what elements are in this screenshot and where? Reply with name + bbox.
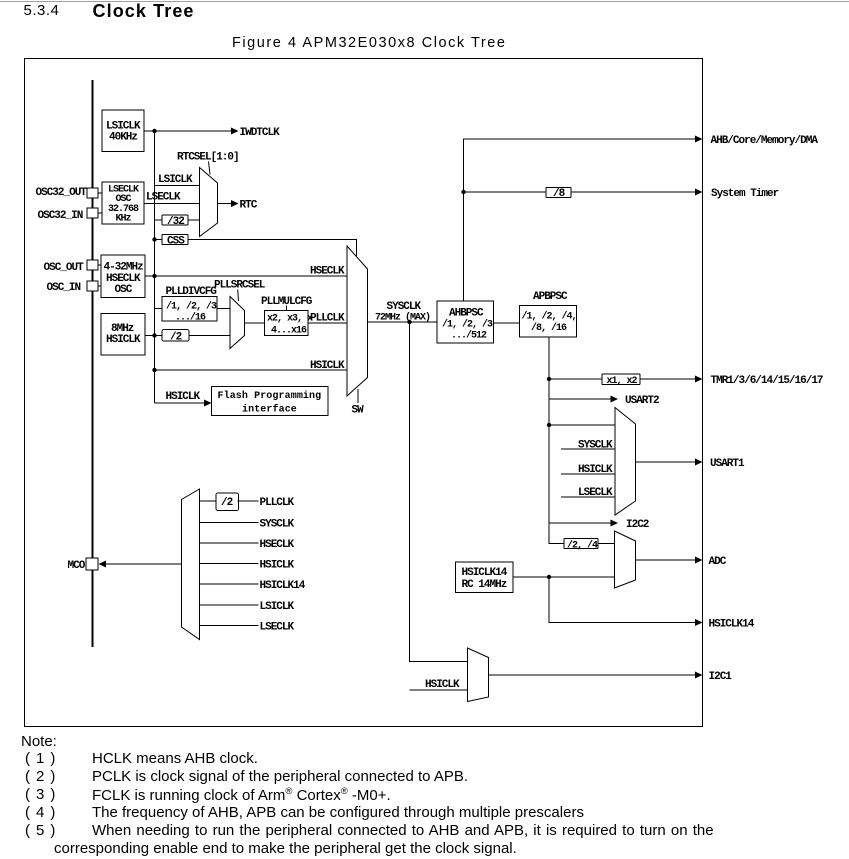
svg-text:/1, /2, /3: /1, /2, /3	[166, 301, 217, 313]
svg-text:HSICLK14: HSICLK14	[709, 619, 755, 631]
mux USART1	[615, 408, 636, 516]
box HSICLK14 RC 14MHz	[456, 562, 514, 593]
wire LSICLK to RTC mux	[155, 174, 200, 186]
wire RTC output	[218, 200, 258, 212]
svg-text:RTC: RTC	[240, 200, 258, 212]
svg-text:USART2: USART2	[625, 395, 659, 407]
svg-text:/1, /2, /4,: /1, /2, /4,	[522, 311, 577, 323]
wire LSICLK to MCO mux	[200, 601, 295, 613]
wire LSECLK stub to USART1 mux	[561, 487, 615, 499]
mux PLLSRCSEL	[230, 297, 245, 349]
wire USART1 output	[636, 458, 746, 470]
mux ADC	[615, 531, 636, 588]
svg-text:SYSCLK: SYSCLK	[578, 440, 613, 452]
svg-text:OSC32_OUT: OSC32_OUT	[36, 187, 88, 199]
svg-text:IWDTCLK: IWDTCLK	[240, 127, 281, 139]
node USART1 junction	[547, 423, 551, 427]
mux MCO	[182, 489, 200, 640]
svg-text:LSICLK: LSICLK	[260, 601, 295, 613]
wire RTCSEL select diagonal	[209, 162, 211, 175]
box AHBPSC	[437, 301, 494, 343]
svg-text:/32: /32	[167, 216, 184, 228]
svg-text:.../512: .../512	[451, 330, 487, 342]
wire AHBPSC to APBPSC	[494, 322, 520, 324]
box PLLMULCFG	[265, 311, 314, 337]
node SYSCLK junction	[407, 320, 411, 324]
wire HSECLK to SW mux	[145, 266, 347, 278]
svg-text:Flash Programming: Flash Programming	[218, 390, 322, 402]
svg-text:CSS: CSS	[167, 236, 185, 248]
svg-text:HSECLK: HSECLK	[260, 539, 295, 551]
svg-text:AHBPSC: AHBPSC	[449, 308, 484, 320]
svg-text:HSICLK: HSICLK	[260, 560, 295, 572]
svg-text:OSC32_IN: OSC32_IN	[38, 210, 83, 222]
svg-text:HSICLK: HSICLK	[166, 391, 201, 403]
svg-text:/8, /16: /8, /16	[531, 322, 567, 334]
svg-text:HSICLK: HSICLK	[106, 334, 141, 346]
node LSICLK junction	[152, 129, 156, 133]
wire USART2	[549, 395, 659, 407]
wire HSICLK stub to USART1 mux	[561, 464, 615, 476]
wire PLLCLK to SW mux	[308, 313, 347, 325]
node TMR junction	[547, 377, 551, 381]
svg-text:OSC_IN: OSC_IN	[47, 282, 81, 294]
svg-text:HSICLK14: HSICLK14	[260, 580, 306, 592]
svg-text:/8: /8	[553, 188, 566, 200]
heading title Clock Tree	[93, 2, 195, 20]
svg-text:RC 14MHz: RC 14MHz	[462, 579, 507, 591]
box Flash Programming interface	[212, 387, 329, 416]
box LSECLK OSC 32.768 KHz	[102, 182, 144, 225]
wire SYSCLK output	[368, 301, 438, 324]
node System Timer junction	[461, 190, 465, 194]
svg-text:HSECLK: HSECLK	[310, 266, 345, 278]
wire PLLMULCFG tick	[286, 306, 288, 311]
svg-text:/1, /2, /3: /1, /2, /3	[442, 319, 493, 331]
svg-text:8MHz: 8MHz	[111, 323, 134, 335]
box APBPSC	[520, 306, 577, 338]
heading number 5.3.4	[24, 3, 60, 18]
mux I2C1	[468, 648, 489, 702]
node CSS junction	[152, 237, 156, 241]
svg-text:ADC: ADC	[709, 556, 727, 568]
svg-text:LSECLK: LSECLK	[260, 622, 295, 634]
block CSS	[155, 235, 189, 248]
wire AHB up	[464, 139, 698, 301]
divider /2,/4	[564, 539, 615, 552]
pin MCO	[68, 558, 99, 572]
outer frame	[25, 59, 703, 727]
svg-text:OSC_OUT: OSC_OUT	[44, 262, 85, 274]
box HSECLK OSC	[101, 255, 145, 298]
multiplier x1,x2	[549, 374, 703, 387]
wire HSICLK14 to MCO mux	[200, 580, 306, 592]
svg-text:40KHz: 40KHz	[109, 132, 137, 144]
svg-text:4...x16: 4...x16	[271, 326, 307, 337]
svg-text:PLLCLK: PLLCLK	[310, 313, 345, 325]
wire I2C1 output	[489, 671, 733, 683]
svg-text:x2, x3, x: x2, x3, x	[267, 314, 313, 325]
svg-text:HSICLK: HSICLK	[425, 679, 460, 691]
svg-text:interface: interface	[242, 404, 297, 416]
divider /32	[155, 215, 200, 228]
wire LSECLK to MCO mux	[200, 622, 295, 634]
svg-text:4-32MHz: 4-32MHz	[104, 262, 144, 274]
svg-text:HSICLK14: HSICLK14	[462, 567, 508, 579]
node HSICLK junction	[152, 333, 156, 337]
wire HSICLK to MCO mux	[200, 560, 295, 572]
wire SW select	[357, 389, 359, 403]
divider /8	[464, 188, 703, 201]
top rule	[0, 1, 849, 2]
svg-text:x1, x2: x1, x2	[607, 376, 638, 387]
wire SYSCLK trunk down to I2C1	[410, 322, 468, 662]
svg-text:USART1: USART1	[710, 458, 745, 470]
svg-text:TMR1/3/6/14/15/16/17: TMR1/3/6/14/15/16/17	[711, 375, 823, 387]
wire APB trunk	[549, 337, 564, 544]
svg-text:AHB/Core/Memory/DMA: AHB/Core/Memory/DMA	[711, 135, 819, 147]
mux RTC	[200, 168, 218, 237]
svg-text:SYSCLK: SYSCLK	[260, 519, 295, 531]
wire HSICLK stub to I2C1 mux	[410, 679, 468, 691]
svg-text:SW: SW	[352, 405, 365, 417]
svg-text:72MHz (MAX): 72MHz (MAX)	[375, 312, 430, 324]
svg-text:KHz: KHz	[116, 214, 132, 225]
svg-text:HSICLK: HSICLK	[310, 360, 345, 372]
pin OSC32_OUT	[36, 187, 103, 199]
svg-text:OSC: OSC	[115, 284, 133, 296]
wire LSECLK to RTC mux	[144, 192, 200, 204]
figure caption	[232, 36, 507, 51]
svg-text:PLLSRCSEL: PLLSRCSEL	[214, 280, 266, 292]
wire trunk vertical	[154, 131, 156, 403]
pin OSC_OUT	[44, 260, 102, 274]
wire HSICLK14 output	[549, 577, 755, 631]
wire MCO output	[99, 561, 182, 568]
wire IWDTCLK	[144, 127, 280, 139]
pin OSC_IN	[47, 281, 102, 294]
svg-text:/2: /2	[170, 332, 182, 344]
box PLLDIVCFG	[155, 297, 230, 324]
svg-text:/2, /4: /2, /4	[567, 540, 598, 552]
divider /2 MCO	[200, 493, 295, 511]
wire PLLSRCSEL select	[237, 290, 240, 302]
svg-text:LSICLK: LSICLK	[158, 174, 193, 186]
divider /2	[145, 330, 230, 344]
wire I2C2	[549, 519, 649, 531]
svg-text:/2: /2	[221, 497, 233, 509]
wire HSICLK to SW mux	[155, 360, 348, 372]
svg-text:MCO: MCO	[68, 560, 86, 572]
svg-text:.../16: .../16	[175, 312, 206, 324]
box LSICLK 40KHz	[102, 110, 144, 152]
pin OSC32_IN	[38, 208, 103, 222]
node HSICLK14 junction	[547, 575, 551, 579]
wire CSS to SW mux	[188, 240, 357, 258]
wire HSICLK14 to ADC mux	[513, 576, 615, 578]
arrow AHB	[695, 136, 703, 143]
svg-text:SYSCLK: SYSCLK	[387, 301, 422, 313]
node HSICLK SW junction	[152, 368, 156, 372]
svg-text:PLLCLK: PLLCLK	[260, 497, 295, 509]
wire HSECLK to MCO mux	[200, 539, 295, 551]
svg-text:APBPSC: APBPSC	[533, 291, 568, 303]
svg-text:I2C1: I2C1	[709, 671, 733, 683]
box 8MHz HSICLK	[101, 314, 145, 356]
mux SW	[347, 246, 368, 396]
svg-text:LSECLK: LSECLK	[146, 192, 181, 204]
wire PLL mux to PLLMULCFG	[245, 322, 265, 324]
notes	[21, 733, 57, 750]
svg-text:RTCSEL[1:0]: RTCSEL[1:0]	[177, 152, 239, 164]
node HSECLK junction	[152, 274, 156, 278]
svg-text:I2C2: I2C2	[626, 519, 649, 531]
wire SYSCLK to MCO mux	[200, 519, 295, 531]
wire ADC output	[636, 556, 727, 568]
wire PCLK to USART1 mux	[549, 424, 615, 426]
wire HSICLK to flash	[155, 391, 212, 407]
chip bus line	[92, 80, 94, 647]
svg-text:System Timer: System Timer	[711, 188, 779, 200]
wire SYSCLK stub to USART1 mux	[561, 440, 615, 452]
